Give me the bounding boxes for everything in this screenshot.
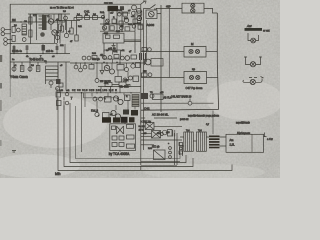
wire upper row bbox=[98, 85, 141, 93]
wire left border bbox=[9, 4, 11, 76]
capacitor C62 bbox=[83, 65, 87, 69]
box X bbox=[145, 123, 154, 130]
X box 2 bbox=[152, 131, 161, 139]
left col dark bar bbox=[56, 79, 61, 84]
svg-text:C41 AEY BAHH 20: C41 AEY BAHH 20 bbox=[171, 96, 192, 99]
small box right col bbox=[59, 83, 63, 87]
resistor R62 bbox=[136, 63, 141, 68]
svg-text:2n12b 4c: 2n12b 4c bbox=[12, 50, 23, 53]
svg-text:BM: BM bbox=[12, 19, 16, 22]
bus junction dots bbox=[81, 92, 132, 93]
wire v3 bbox=[51, 15, 55, 43]
resistor R6 bbox=[59, 24, 62, 31]
resistor R22b bbox=[114, 35, 120, 38]
resistor R7 bbox=[60, 26, 63, 32]
capacitor C11 bbox=[12, 67, 16, 71]
ground bbox=[112, 43, 116, 48]
transistor Q14 bbox=[115, 114, 120, 119]
transistor Q1 bbox=[48, 19, 53, 24]
capacitor C6 bbox=[64, 33, 68, 37]
IC dark row bbox=[102, 117, 111, 123]
svg-text:AG08: AG08 bbox=[147, 23, 155, 27]
transistor Q11 bbox=[113, 96, 118, 101]
svg-text:RM: RM bbox=[143, 71, 147, 73]
resistor R11 bbox=[85, 16, 90, 20]
lamp HL6 bbox=[196, 75, 200, 79]
resistor R18 bbox=[20, 66, 24, 72]
transistor Q4 bbox=[136, 8, 141, 13]
resistor R3 bbox=[29, 17, 32, 24]
resistor R12 bbox=[93, 16, 98, 20]
resistor R29b bbox=[119, 82, 126, 87]
svg-text:nn ee Tb 15w an R2 c4: nn ee Tb 15w an R2 c4 bbox=[50, 8, 74, 10]
transformer T2 winding R bbox=[197, 132, 207, 151]
capacitor C50 bbox=[148, 48, 152, 52]
capacitor C16 bbox=[93, 97, 97, 101]
svg-text:40P: 40P bbox=[166, 5, 171, 9]
lamp HL1 bbox=[191, 4, 195, 8]
transformer T2 winding L bbox=[184, 132, 194, 151]
wire top border bbox=[10, 3, 141, 5]
module cell E bbox=[119, 143, 124, 147]
power supply box bbox=[226, 134, 264, 152]
transistor module AG08 bbox=[146, 10, 157, 19]
wire stubs into bus bbox=[14, 44, 65, 54]
part stub 2 bbox=[26, 46, 29, 51]
wire top-left bus bbox=[10, 14, 70, 22]
resistor R23 bbox=[125, 95, 131, 101]
wire grid verticals bbox=[104, 11, 135, 52]
paper background bbox=[0, 0, 280, 178]
left edge smudge A bbox=[0, 55, 2, 62]
dark block hatched bbox=[132, 95, 139, 107]
antenna arrow bbox=[141, 1, 146, 4]
transistor Q15 bbox=[160, 133, 163, 136]
connector cluster right bbox=[179, 143, 183, 146]
meter loop M2 bbox=[184, 72, 207, 84]
meter loop M1 bbox=[184, 47, 206, 58]
capacitor C36 bbox=[103, 56, 107, 60]
resistor R19 bbox=[36, 66, 40, 72]
wire cluster drops bbox=[117, 31, 135, 53]
transistor Q10 bbox=[145, 59, 151, 65]
svg-text:y 202 Hg: y 202 Hg bbox=[141, 119, 152, 123]
module cell D bbox=[112, 143, 117, 147]
resistor R25 bbox=[112, 126, 116, 130]
capacitor C3 bbox=[40, 32, 45, 37]
resistor R5 bbox=[59, 14, 62, 21]
resistor R2 bbox=[12, 36, 15, 42]
transistor Q21 bbox=[110, 69, 115, 74]
wire h y150 bbox=[141, 144, 154, 146]
svg-text:Cxx R31: Cxx R31 bbox=[104, 3, 114, 5]
capacitor C51 bbox=[148, 73, 152, 77]
wire mid bus bbox=[55, 20, 80, 22]
transistor Q2 bbox=[52, 30, 57, 35]
capacitor C42b bbox=[56, 87, 60, 91]
wire bus y53 bbox=[10, 53, 70, 55]
transistor Q5 bbox=[102, 26, 106, 30]
wire loop2 feed bbox=[141, 51, 184, 53]
wire loop3 feed bbox=[141, 77, 184, 79]
capacitor C1 bbox=[16, 28, 20, 32]
transistor Q8b bbox=[125, 56, 130, 61]
svg-text:a Cw: a Cw bbox=[267, 138, 273, 141]
svg-text:To4HocTb: To4HocTb bbox=[29, 58, 44, 62]
lamp loop box top bbox=[182, 3, 204, 13]
diode V3 bbox=[100, 71, 104, 75]
svg-text:7: 7 bbox=[71, 97, 73, 101]
part stub 4 bbox=[56, 46, 59, 50]
capacitor C39 bbox=[82, 56, 86, 60]
resistor R60 bbox=[89, 65, 94, 70]
resistor R19b bbox=[133, 19, 137, 23]
wire rail drop to psu bbox=[212, 111, 214, 135]
wire loop B bbox=[64, 101, 193, 167]
svg-text:AC 20-24 ML: AC 20-24 ML bbox=[152, 112, 169, 116]
svg-text:n14 6c: n14 6c bbox=[46, 50, 54, 53]
svg-text:Cbu gb: Cbu gb bbox=[92, 58, 100, 61]
wire drops mid block bbox=[76, 50, 133, 79]
junction dots y63 bbox=[75, 62, 133, 63]
transistor Q20 bbox=[104, 65, 109, 70]
junction dots bbox=[81, 17, 136, 94]
capacitor C18 bbox=[95, 112, 99, 116]
capacitor C66 bbox=[123, 78, 127, 82]
wire loop3 out bbox=[207, 77, 218, 79]
wire bars to box bbox=[206, 137, 226, 146]
screen box bbox=[103, 33, 124, 43]
resistor R50 bbox=[142, 48, 147, 52]
capacitor C64 bbox=[125, 68, 129, 72]
wire h y160 bbox=[141, 161, 180, 166]
wire v2 bbox=[36, 14, 38, 40]
resistor R1 bbox=[12, 27, 15, 33]
coil L1 bbox=[22, 24, 26, 35]
resistor R8 bbox=[70, 28, 73, 34]
resistor R24b bbox=[131, 55, 137, 59]
svg-text:C42: C42 bbox=[144, 107, 150, 111]
svg-text:C2 C9 C16 C28 103 10b 112 R: C2 C9 C16 C28 103 10b 112 R bbox=[72, 90, 117, 92]
capacitor C37 bbox=[108, 56, 112, 60]
part stub 3 bbox=[42, 45, 45, 51]
socket X2 bbox=[244, 57, 262, 65]
svg-text:by TCA 4005A: by TCA 4005A bbox=[109, 152, 130, 156]
wire center y105 bbox=[84, 97, 119, 99]
capacitor C17 bbox=[99, 97, 103, 101]
svg-text:1,1L: 1,1L bbox=[230, 143, 236, 147]
socket X1 bbox=[248, 33, 259, 41]
transistor Q12 bbox=[118, 99, 123, 104]
wire loop2 out bbox=[206, 51, 217, 53]
lamp HL3 bbox=[189, 49, 193, 53]
capacitor C4 bbox=[64, 16, 68, 20]
wire box stub bbox=[119, 151, 121, 153]
wire v4 bbox=[60, 20, 66, 44]
resistor R51 bbox=[142, 73, 148, 77]
capacitor C13 bbox=[49, 81, 53, 85]
resistor R10 bbox=[77, 16, 83, 20]
module cell C bbox=[127, 135, 135, 139]
input jack J1 bbox=[1, 28, 5, 32]
wire loop C bbox=[70, 103, 186, 163]
resistor R22 bbox=[105, 97, 112, 103]
wire verticals right frame bbox=[180, 142, 183, 156]
part stub 1 bbox=[13, 46, 16, 50]
wire inner vertical bus 2 bbox=[143, 8, 145, 150]
wire inner vertical bus bbox=[140, 4, 142, 165]
small mark bottom-left bbox=[12, 151, 16, 153]
wire h y135 bbox=[141, 135, 152, 137]
junction dots bus bbox=[20, 21, 54, 22]
capacitor C14 bbox=[65, 92, 69, 96]
transformer T1 bbox=[42, 15, 47, 30]
resistor R64b bbox=[133, 76, 139, 82]
capacitor C31 bbox=[106, 19, 110, 23]
resistor R18b bbox=[137, 11, 142, 15]
svg-text:pewl onl: pewl onl bbox=[180, 119, 189, 121]
switch S1 bbox=[150, 5, 157, 10]
svg-text:or ext: or ext bbox=[263, 29, 270, 33]
left edge smudge D bbox=[0, 140, 2, 146]
antenna bar bbox=[245, 28, 263, 31]
resistor R24 bbox=[103, 113, 110, 119]
capacitor C12 bbox=[28, 67, 32, 71]
svg-text:gA1 40: gA1 40 bbox=[108, 48, 116, 51]
resistor R20b bbox=[138, 25, 143, 29]
transformer leads bbox=[180, 137, 197, 146]
svg-text:Y4em Cmon: Y4em Cmon bbox=[10, 75, 28, 79]
PCB module box bbox=[110, 124, 136, 151]
dark marks right bbox=[123, 110, 129, 115]
transistor Q3 bbox=[132, 5, 137, 10]
transistor Q6 bbox=[124, 18, 128, 22]
wire bus y62 bbox=[10, 61, 70, 63]
resistor R14 bbox=[110, 26, 114, 30]
resistor R9 bbox=[75, 35, 78, 41]
transistor Q9 dark bbox=[137, 16, 142, 21]
svg-text:Mih: Mih bbox=[55, 172, 61, 176]
svg-text:np: np bbox=[192, 67, 196, 71]
connector bars bbox=[140, 53, 146, 60]
box 40P lower bbox=[151, 59, 163, 67]
box mid bbox=[153, 94, 164, 100]
wire right vertical bus bbox=[160, 5, 162, 112]
lamp HL2 bbox=[191, 8, 195, 12]
resistor R25b bbox=[92, 56, 97, 60]
module cell A bbox=[112, 136, 117, 140]
resistor R15 bbox=[123, 12, 127, 16]
capacitor C34 bbox=[131, 11, 135, 15]
wire row y17 bbox=[74, 18, 104, 21]
resistor R17 bbox=[125, 27, 130, 31]
wire bottom bus left bbox=[10, 43, 57, 45]
wire antenna feed bbox=[144, 7, 182, 9]
lamp HL5 bbox=[189, 75, 193, 79]
resistor R16 bbox=[119, 21, 123, 25]
junction dots bus53 bbox=[13, 53, 57, 63]
capacitor C60 bbox=[74, 65, 78, 69]
coupling bars bbox=[209, 136, 220, 138]
wire loop A bbox=[58, 98, 232, 171]
wire h y118 bbox=[141, 117, 177, 119]
resistor R61 bbox=[117, 65, 124, 71]
wire box to bus bbox=[124, 40, 141, 42]
capacitor C30 bbox=[101, 15, 104, 18]
wire right rail vertical bbox=[217, 13, 218, 109]
wire h y101 bbox=[141, 99, 214, 104]
wire v1 bbox=[29, 14, 31, 44]
wire drops center bbox=[82, 93, 136, 152]
head symbol hatched box bbox=[46, 66, 59, 80]
resistor R13 bbox=[112, 19, 116, 23]
wire grid horizontals bbox=[100, 13, 143, 31]
wire psu out bbox=[264, 133, 267, 138]
wire h y127 bbox=[141, 126, 182, 133]
capacitor C61 bbox=[79, 68, 83, 72]
capacitor C67 bbox=[129, 76, 133, 80]
svg-text:40b 4WD: 40b 4WD bbox=[119, 86, 129, 89]
svg-text:Ant: Ant bbox=[246, 24, 252, 28]
wire drops y62 bbox=[14, 62, 66, 90]
component on wire y103 bbox=[188, 101, 192, 105]
module cell F bbox=[127, 144, 135, 148]
svg-text:40L: 40L bbox=[104, 81, 109, 85]
connector dots col bbox=[169, 147, 172, 150]
component cluster q bbox=[163, 130, 168, 135]
module cell B bbox=[119, 136, 124, 140]
wire mid vertical x169 bbox=[168, 9, 170, 78]
capacitor C33 bbox=[120, 26, 124, 30]
capacitor C5 bbox=[55, 35, 59, 39]
svg-text:f7X qb: f7X qb bbox=[152, 145, 160, 149]
capacitor C2 bbox=[22, 38, 26, 42]
resistor R20 bbox=[56, 92, 61, 97]
capacitor C63 bbox=[95, 79, 99, 83]
resistor R63 bbox=[115, 77, 122, 83]
wire risers bbox=[30, 14, 65, 22]
capacitor C19 bbox=[141, 139, 182, 141]
capacitor C35 bbox=[132, 25, 136, 29]
capacitor C32 bbox=[118, 12, 122, 16]
wire v drops to mid bbox=[46, 80, 52, 88]
wire inner vertical bus 3 bbox=[145, 20, 147, 62]
component cluster left bbox=[141, 93, 148, 99]
lamp HL4 bbox=[195, 49, 199, 53]
wire v right x176 bbox=[175, 133, 178, 165]
wire bus y63 bbox=[70, 62, 146, 64]
left edge smudge B bbox=[0, 83, 2, 89]
svg-text:nepekl24umb: nepekl24umb bbox=[236, 123, 251, 125]
phase splitter X symbol bbox=[117, 126, 124, 134]
capacitor C15 bbox=[65, 101, 69, 105]
left edge smudge C bbox=[0, 100, 2, 111]
shield box DA1 bbox=[104, 50, 121, 59]
capacitor C38 bbox=[120, 56, 124, 60]
capacitor C65 bbox=[131, 64, 135, 68]
resistor R21 bbox=[57, 101, 62, 106]
IC dark block bbox=[108, 6, 119, 11]
resistor R21b bbox=[106, 35, 111, 38]
wire to right rail bbox=[204, 8, 217, 13]
input jack J3 bbox=[4, 38, 8, 42]
resistor R28b bbox=[105, 83, 112, 87]
box diag bbox=[154, 150, 166, 160]
wire loop D bbox=[76, 106, 181, 159]
svg-text:0u 20L: 0u 20L bbox=[139, 126, 146, 128]
wire v x140 bottom bbox=[140, 166, 142, 170]
socket X3 bbox=[243, 77, 264, 83]
svg-text:KgAnpem: KgAnpem bbox=[237, 131, 251, 135]
wire col v bbox=[57, 88, 64, 110]
svg-text:Am: Am bbox=[230, 138, 234, 142]
input jack J2 bbox=[1, 32, 5, 36]
resistor R26 bbox=[127, 125, 134, 129]
wire center bus y97 bbox=[57, 92, 140, 94]
svg-text:4Lf 2: 4Lf 2 bbox=[139, 130, 145, 132]
capacitor C40 bbox=[87, 56, 91, 60]
svg-text:C47 Pg de:cn: C47 Pg de:cn bbox=[186, 86, 203, 90]
wire drops bbox=[58, 21, 77, 44]
svg-text:nepeklo4amenb poga pabom: nepeklo4amenb poga pabom bbox=[188, 115, 219, 118]
transistor Q13 bbox=[111, 110, 116, 115]
resistor R23b bbox=[114, 55, 119, 59]
resistor R4 bbox=[29, 30, 32, 37]
wire bottom of right box bbox=[141, 108, 219, 111]
